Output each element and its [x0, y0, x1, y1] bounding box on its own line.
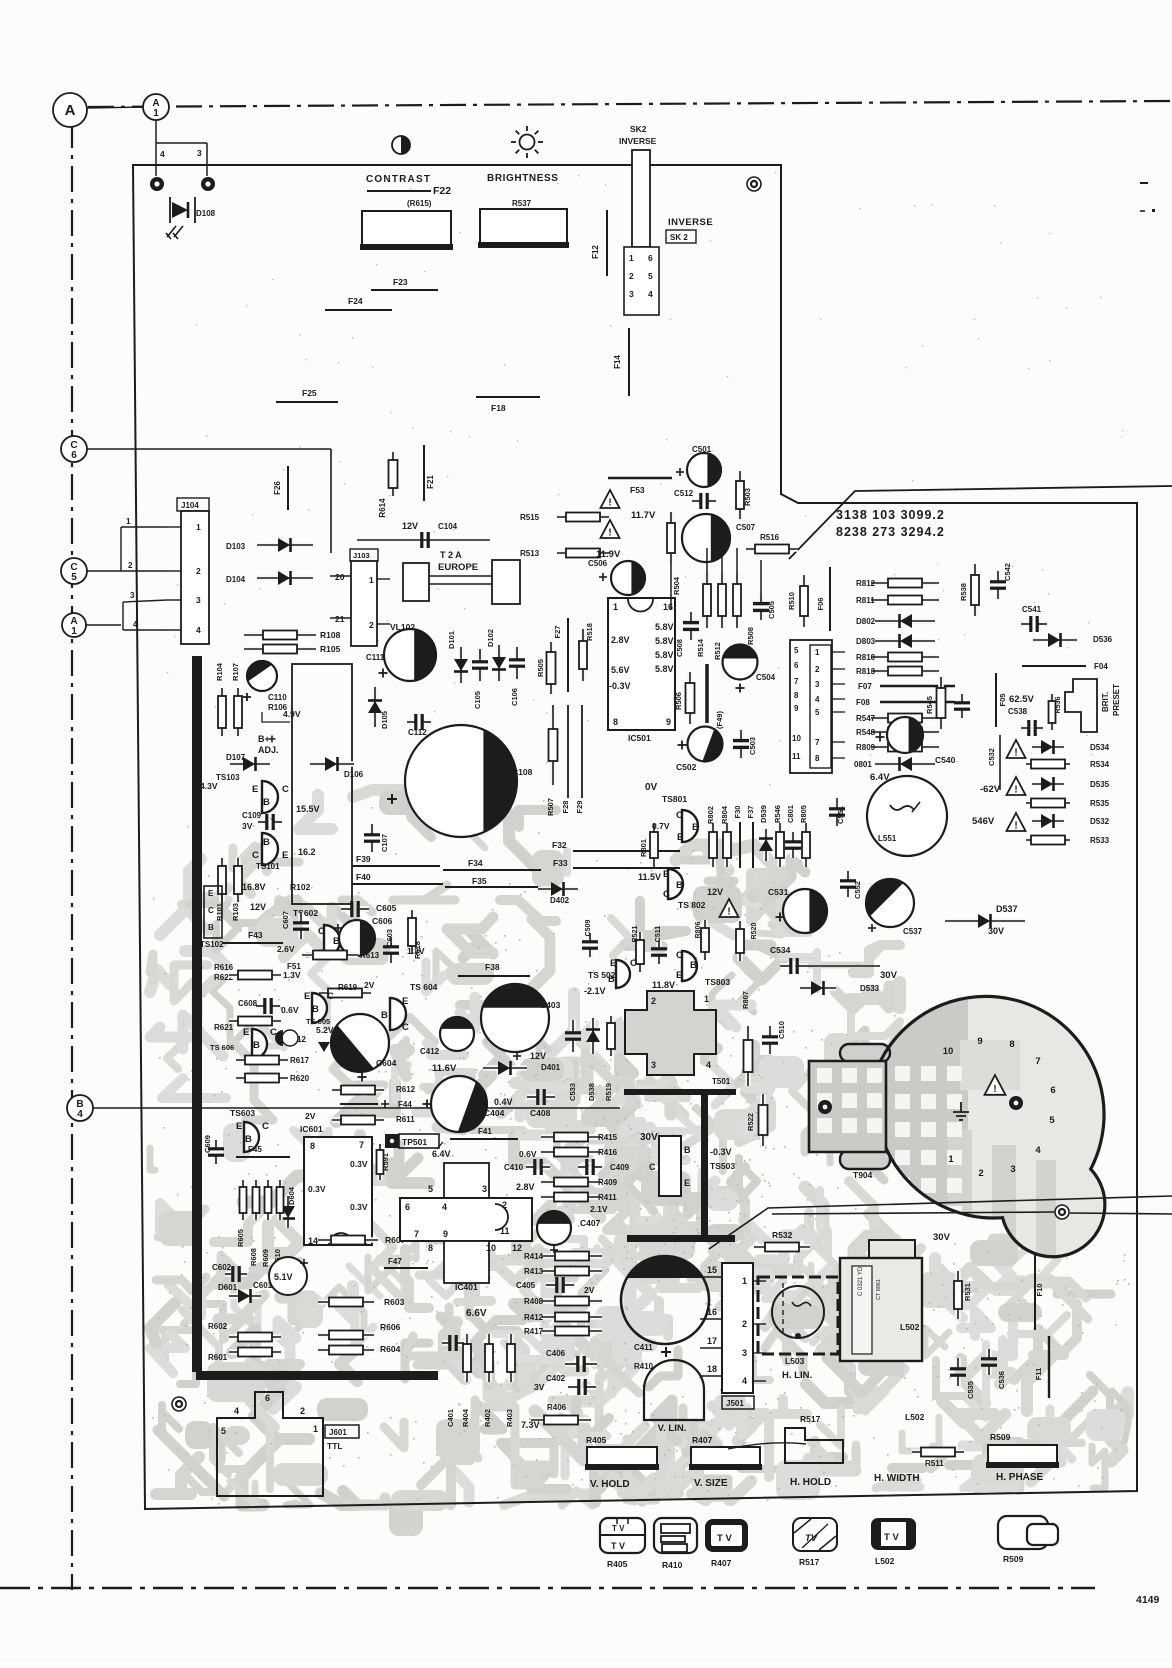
resistor R618 — [409, 910, 415, 954]
svg-text:D539: D539 — [759, 805, 768, 823]
svg-text:4: 4 — [442, 1202, 447, 1212]
contrast icon — [392, 136, 410, 154]
wires above resistor column — [706, 548, 708, 574]
svg-text:1: 1 — [369, 575, 374, 585]
svg-text:0.3V: 0.3V — [308, 1184, 326, 1194]
svg-text:C409: C409 — [610, 1163, 630, 1172]
svg-text:4: 4 — [648, 289, 653, 299]
transistor TS101 — [262, 833, 278, 865]
svg-text:L502: L502 — [875, 1556, 895, 1566]
capacitor C108 — [405, 725, 517, 837]
capacitor C501 — [687, 453, 721, 487]
svg-text:C512: C512 — [674, 489, 694, 498]
capacitor C552 — [845, 871, 851, 881]
capacitor C104 — [422, 537, 425, 543]
line F18 — [476, 396, 540, 398]
svg-text:B: B — [692, 822, 699, 833]
svg-text:C402: C402 — [546, 1374, 566, 1383]
svg-text:7.3V: 7.3V — [521, 1420, 540, 1430]
svg-text:C509: C509 — [585, 920, 592, 937]
grid ref circle A1 lower — [62, 613, 86, 637]
capacitor C411 — [621, 1256, 709, 1344]
svg-text:D103: D103 — [226, 542, 246, 551]
svg-text:9: 9 — [666, 717, 671, 727]
resistor R408 — [542, 1298, 602, 1304]
svg-text:TS101: TS101 — [256, 862, 280, 871]
svg-text:C: C — [252, 850, 259, 861]
svg-text:C408: C408 — [530, 1108, 551, 1118]
svg-text:12V: 12V — [707, 887, 723, 897]
svg-text:D533: D533 — [860, 984, 880, 993]
svg-text:R506: R506 — [674, 692, 683, 710]
resistor R612 — [332, 1087, 384, 1093]
resistor R505 — [548, 642, 554, 694]
svg-text:R619: R619 — [338, 983, 358, 992]
resistor R521 — [637, 932, 643, 972]
resistor R504 — [668, 512, 674, 564]
svg-text:C602: C602 — [212, 1263, 232, 1272]
svg-text:C504: C504 — [756, 673, 776, 682]
svg-text:F33: F33 — [553, 858, 568, 868]
capacitor C412 — [440, 1017, 474, 1051]
flyback tab bottom — [840, 1150, 890, 1169]
resistor R610 — [277, 1180, 283, 1220]
svg-text:D537: D537 — [996, 904, 1018, 914]
wire from A1 lower — [86, 624, 121, 626]
warning triangle 3 — [1007, 813, 1026, 831]
svg-text:F32: F32 — [552, 840, 567, 850]
svg-text:C607: C607 — [281, 911, 290, 929]
svg-text:TS503: TS503 — [710, 1161, 735, 1171]
svg-text:R802: R802 — [706, 806, 715, 824]
svg-text:R612: R612 — [396, 1085, 416, 1094]
ground symbol — [953, 1102, 969, 1120]
svg-text:30V: 30V — [988, 926, 1004, 936]
svg-text:R503: R503 — [743, 488, 752, 506]
connector block 800 — [790, 640, 832, 773]
resistor R617 — [236, 1057, 288, 1063]
svg-text:C606: C606 — [372, 916, 393, 926]
svg-text:E: E — [663, 869, 669, 880]
wire 12V — [357, 539, 490, 541]
svg-text:18: 18 — [707, 1364, 717, 1374]
svg-text:B: B — [263, 837, 270, 848]
capacitor C401 — [442, 1340, 450, 1346]
svg-text:30V: 30V — [880, 970, 898, 981]
svg-text:0.3V: 0.3V — [350, 1202, 368, 1212]
svg-text:R514: R514 — [696, 638, 705, 657]
svg-text:1: 1 — [815, 648, 820, 657]
svg-text:-62V: -62V — [980, 784, 1001, 795]
svg-text:TS 604: TS 604 — [410, 982, 438, 992]
svg-text:H. WIDTH: H. WIDTH — [874, 1473, 920, 1484]
svg-text:V. SIZE: V. SIZE — [694, 1478, 728, 1489]
svg-text:R417: R417 — [524, 1327, 544, 1336]
svg-text:E: E — [610, 958, 616, 969]
grid ref circle C6 — [61, 436, 87, 462]
svg-text:C508: C508 — [675, 639, 684, 657]
svg-text:12: 12 — [512, 1243, 522, 1253]
svg-text:-2.1V: -2.1V — [584, 986, 606, 996]
svg-text:4: 4 — [706, 1060, 711, 1070]
svg-text:R107: R107 — [231, 663, 240, 681]
resistor R608 — [253, 1180, 259, 1220]
svg-text:R809: R809 — [856, 743, 876, 752]
resistor R519 — [608, 1016, 614, 1056]
svg-text:2: 2 — [978, 1168, 983, 1179]
resistor R515 — [557, 514, 609, 520]
svg-text:L503: L503 — [785, 1356, 805, 1366]
resistor R605 — [240, 1180, 246, 1220]
svg-text:12V: 12V — [250, 902, 266, 912]
svg-text:R548: R548 — [856, 728, 876, 737]
capacitor C605 — [341, 906, 352, 912]
svg-text:R409: R409 — [598, 1178, 618, 1187]
line F07 — [880, 685, 955, 687]
svg-text:C507: C507 — [736, 523, 756, 532]
svg-text:C109: C109 — [242, 811, 262, 820]
svg-text:3: 3 — [196, 595, 201, 605]
resistor R406 — [531, 1417, 591, 1423]
svg-text:-0.3V: -0.3V — [710, 1147, 732, 1157]
svg-text:C551: C551 — [836, 806, 845, 824]
svg-text:J501: J501 — [726, 1399, 744, 1408]
svg-text:D536: D536 — [1093, 635, 1113, 644]
svg-text:11: 11 — [792, 752, 801, 761]
resistor R811 — [871, 597, 939, 603]
svg-text:C 0321 YD: C 0321 YD — [858, 1266, 864, 1296]
svg-text:C108: C108 — [512, 767, 533, 777]
warning triangle — [601, 490, 620, 508]
svg-text:E: E — [684, 1178, 690, 1188]
resistor R512 — [719, 572, 725, 628]
diode D107 — [230, 761, 270, 767]
svg-text:C502: C502 — [676, 762, 697, 772]
diode D103 — [257, 542, 313, 548]
connector SK2 tab — [632, 150, 650, 247]
svg-text:C531: C531 — [768, 887, 789, 897]
svg-text:F14: F14 — [613, 355, 622, 369]
svg-text:C608: C608 — [238, 999, 258, 1008]
svg-text:R538: R538 — [959, 583, 968, 601]
svg-text:E: E — [252, 784, 258, 795]
label J501 — [722, 1396, 754, 1409]
svg-text:8238 273 3294.2: 8238 273 3294.2 — [836, 525, 945, 539]
svg-text:C552: C552 — [853, 881, 862, 899]
svg-text:R517: R517 — [800, 1414, 821, 1424]
connector J501 — [722, 1263, 753, 1393]
svg-text:B: B — [253, 1040, 260, 1051]
svg-text:C412: C412 — [420, 1047, 440, 1056]
resistor R403 — [508, 1334, 514, 1382]
svg-text:TS 802: TS 802 — [678, 900, 706, 910]
diode D536 — [1033, 637, 1077, 643]
svg-text:3: 3 — [629, 289, 634, 299]
resistor R101 — [219, 858, 225, 902]
capacitor C403 — [481, 984, 549, 1052]
bar T501 bottom — [627, 1235, 735, 1242]
svg-text:F23: F23 — [393, 277, 408, 287]
capacitor C503 — [738, 730, 744, 741]
svg-text:R518: R518 — [585, 623, 594, 641]
svg-text:E: E — [236, 1121, 242, 1132]
svg-text:2V: 2V — [584, 1285, 595, 1295]
cap 5.1V circle — [269, 1257, 307, 1295]
svg-text:1: 1 — [153, 108, 159, 119]
svg-text:F21: F21 — [426, 475, 435, 489]
svg-text:8: 8 — [310, 1141, 315, 1151]
pad left — [818, 1100, 832, 1114]
svg-text:2: 2 — [300, 1406, 305, 1416]
icon R517 — [793, 1518, 837, 1551]
svg-text:1: 1 — [71, 626, 77, 637]
flyback transformer outline — [875, 996, 1105, 1256]
line F29 — [581, 705, 583, 798]
alignment target top — [747, 177, 761, 191]
line F25 — [276, 401, 338, 403]
svg-text:!: ! — [993, 1084, 996, 1095]
svg-text:9: 9 — [443, 1229, 448, 1239]
svg-text:T V: T V — [612, 1524, 625, 1533]
svg-text:C411: C411 — [634, 1343, 653, 1352]
svg-text:D535: D535 — [1090, 780, 1110, 789]
resistor R604 — [318, 1347, 374, 1353]
svg-text:4: 4 — [742, 1376, 747, 1386]
transistor TS606 — [252, 1029, 267, 1059]
long wire right pair — [709, 1196, 1172, 1249]
grid ref circle C5 — [61, 558, 87, 584]
svg-text:6: 6 — [265, 1393, 270, 1403]
transformer T904 block — [809, 1061, 886, 1152]
svg-text:BRIT.: BRIT. — [1101, 692, 1110, 712]
svg-text:C407: C407 — [580, 1218, 601, 1228]
line F38 — [458, 975, 530, 977]
diode D802 — [875, 618, 935, 624]
line F12 — [606, 210, 608, 276]
svg-text:11.6V: 11.6V — [432, 1063, 457, 1074]
svg-text:6: 6 — [1050, 1085, 1055, 1096]
resistor R601 — [229, 1349, 281, 1355]
grid ref circle A1 — [143, 94, 169, 120]
svg-text:!: ! — [1014, 785, 1017, 796]
svg-text:546V: 546V — [972, 816, 995, 827]
J104 harness — [121, 527, 167, 630]
connector J601 TTL — [217, 1392, 323, 1496]
svg-text:F39: F39 — [356, 854, 371, 864]
svg-text:TTL: TTL — [327, 1441, 343, 1451]
svg-text:5.1V: 5.1V — [274, 1272, 293, 1282]
capacitor C539 — [959, 694, 965, 703]
svg-text:C609: C609 — [203, 1135, 212, 1153]
svg-text:R801: R801 — [639, 839, 648, 857]
svg-text:11.7V: 11.7V — [631, 510, 656, 521]
svg-text:5.2V: 5.2V — [316, 1025, 334, 1035]
svg-text:R621: R621 — [214, 1023, 234, 1032]
capacitor C537 — [866, 879, 914, 927]
ic IC501 — [608, 598, 675, 730]
svg-text:C: C — [282, 784, 289, 795]
capacitor C551 — [834, 798, 840, 809]
svg-text:TS602: TS602 — [293, 908, 318, 918]
solder pad 4 — [150, 177, 164, 191]
svg-text:2.8V: 2.8V — [516, 1182, 535, 1192]
svg-text:1: 1 — [742, 1276, 747, 1286]
cross module T501 — [625, 991, 716, 1075]
capacitor C110 — [247, 661, 277, 691]
svg-text:C506: C506 — [588, 559, 608, 568]
svg-text:C535: C535 — [966, 1381, 975, 1399]
svg-text:R810: R810 — [856, 653, 876, 662]
diode D401 — [483, 1065, 527, 1071]
capacitor C404 — [431, 1076, 487, 1132]
svg-text:F37: F37 — [746, 806, 755, 819]
diode D105 — [372, 687, 378, 727]
icon L502 — [871, 1518, 916, 1550]
svg-text:0.6V: 0.6V — [519, 1149, 537, 1159]
svg-text:5: 5 — [1049, 1115, 1055, 1126]
svg-text:11: 11 — [500, 1226, 510, 1236]
transistor V.LIN — [644, 1360, 704, 1420]
svg-text:C537: C537 — [903, 927, 923, 936]
svg-text:V. LIN.: V. LIN. — [658, 1423, 687, 1434]
diode D102 — [496, 645, 502, 681]
svg-text:2V: 2V — [364, 980, 375, 990]
svg-text:R410: R410 — [662, 1560, 683, 1570]
line F37 — [752, 822, 754, 868]
svg-text:7: 7 — [359, 1140, 364, 1150]
svg-text:C: C — [262, 1121, 269, 1132]
svg-text:4: 4 — [234, 1406, 239, 1416]
svg-text:2.6V: 2.6V — [277, 944, 295, 954]
pad right — [1009, 1096, 1023, 1110]
transistor TS801b — [668, 869, 683, 899]
svg-text:C605: C605 — [376, 903, 397, 913]
potentiometer R615 contrast — [362, 211, 451, 249]
svg-text:E: E — [208, 889, 214, 898]
svg-text:C: C — [402, 1022, 409, 1033]
svg-text:R104: R104 — [215, 662, 224, 681]
svg-text:16: 16 — [707, 1307, 717, 1317]
svg-text:R512: R512 — [713, 642, 722, 660]
svg-text:8: 8 — [1009, 1039, 1014, 1050]
svg-text:C538: C538 — [1008, 707, 1028, 716]
diode D535 — [1032, 781, 1064, 787]
svg-text:F08: F08 — [856, 698, 870, 707]
svg-text:3: 3 — [742, 1348, 747, 1358]
line F04 — [1022, 665, 1086, 667]
svg-text:2: 2 — [815, 665, 820, 674]
capacitor C532 — [999, 735, 1001, 790]
capacitor C410 — [526, 1164, 535, 1170]
svg-text:R547: R547 — [856, 714, 876, 723]
svg-text:D401: D401 — [541, 1063, 561, 1072]
pcb outline solid border — [133, 165, 1137, 1509]
line F10 — [1034, 1252, 1036, 1330]
icon R407 — [705, 1519, 748, 1552]
svg-text:6.4V: 6.4V — [432, 1149, 451, 1159]
svg-text:R531: R531 — [963, 1283, 972, 1301]
svg-text:C401: C401 — [446, 1409, 455, 1427]
svg-text:5: 5 — [428, 1184, 433, 1194]
svg-text:3138 103 3099.2: 3138 103 3099.2 — [836, 508, 945, 522]
resistor R810 — [871, 654, 939, 660]
resistor R511 — [912, 1449, 964, 1455]
resistor R503 — [737, 471, 743, 519]
svg-text:D534: D534 — [1090, 743, 1110, 752]
svg-text:17: 17 — [707, 1336, 717, 1346]
svg-text:F18: F18 — [491, 403, 506, 413]
diode D538 — [590, 1018, 596, 1054]
svg-text:1: 1 — [196, 522, 201, 532]
capacitor C541 — [1021, 621, 1031, 627]
dashed bracket — [782, 1283, 784, 1332]
svg-text:R520: R520 — [751, 923, 758, 940]
svg-text:SK2: SK2 — [630, 124, 647, 134]
svg-text:F47: F47 — [388, 1257, 402, 1266]
ic IC401 main — [400, 1198, 532, 1241]
svg-text:PRESET: PRESET — [1112, 684, 1121, 716]
svg-text:INVERSE: INVERSE — [668, 217, 713, 228]
svg-text:CONTRAST: CONTRAST — [366, 174, 431, 185]
svg-text:30V: 30V — [640, 1132, 658, 1143]
svg-text:C: C — [318, 926, 325, 937]
svg-text:D402: D402 — [550, 896, 570, 905]
bar T501 vertical — [701, 1089, 708, 1239]
svg-text:4: 4 — [196, 625, 201, 635]
svg-text:5: 5 — [648, 271, 653, 281]
svg-text:IC401: IC401 — [455, 1282, 478, 1292]
svg-text:10: 10 — [943, 1046, 954, 1057]
diode D532 — [1032, 818, 1064, 824]
svg-text:L551: L551 — [878, 834, 897, 843]
svg-text:(F49): (F49) — [715, 711, 724, 729]
svg-text:J601: J601 — [329, 1428, 347, 1437]
svg-text:D104: D104 — [226, 575, 246, 584]
svg-text:B: B — [381, 1010, 388, 1021]
transistor TS802 — [682, 951, 697, 981]
svg-text:D532: D532 — [1090, 817, 1110, 826]
svg-text:C: C — [676, 810, 683, 821]
resistor R809 — [871, 744, 939, 750]
svg-text:6.6V: 6.6V — [466, 1308, 487, 1319]
capacitor C106 — [514, 647, 520, 660]
svg-text:R108: R108 — [320, 630, 341, 640]
svg-text:R509: R509 — [1003, 1554, 1024, 1564]
grid ref circle B4 — [67, 1095, 93, 1121]
svg-text:R519: R519 — [604, 1083, 613, 1101]
line F24 — [325, 309, 392, 311]
svg-text:D105: D105 — [380, 711, 389, 729]
svg-text:R405: R405 — [607, 1559, 628, 1569]
transistor TS102 block — [204, 886, 222, 938]
transistor TS605 — [312, 993, 327, 1023]
resistor R411 — [541, 1194, 601, 1200]
capacitor C604 — [331, 1014, 389, 1072]
svg-text:R511: R511 — [925, 1459, 944, 1468]
svg-text:2: 2 — [196, 566, 201, 576]
svg-text:3: 3 — [130, 591, 135, 600]
svg-text:!: ! — [727, 907, 730, 918]
svg-text:R811: R811 — [856, 596, 875, 605]
svg-text:1: 1 — [126, 517, 131, 526]
svg-text:E: E — [304, 991, 310, 1002]
svg-text:12V: 12V — [530, 1051, 546, 1061]
svg-text:R508: R508 — [746, 627, 755, 645]
svg-text:R805: R805 — [799, 805, 808, 823]
warning triangle 2 — [1007, 777, 1026, 795]
line F27 — [567, 618, 569, 692]
resistor R621 — [229, 1018, 281, 1024]
